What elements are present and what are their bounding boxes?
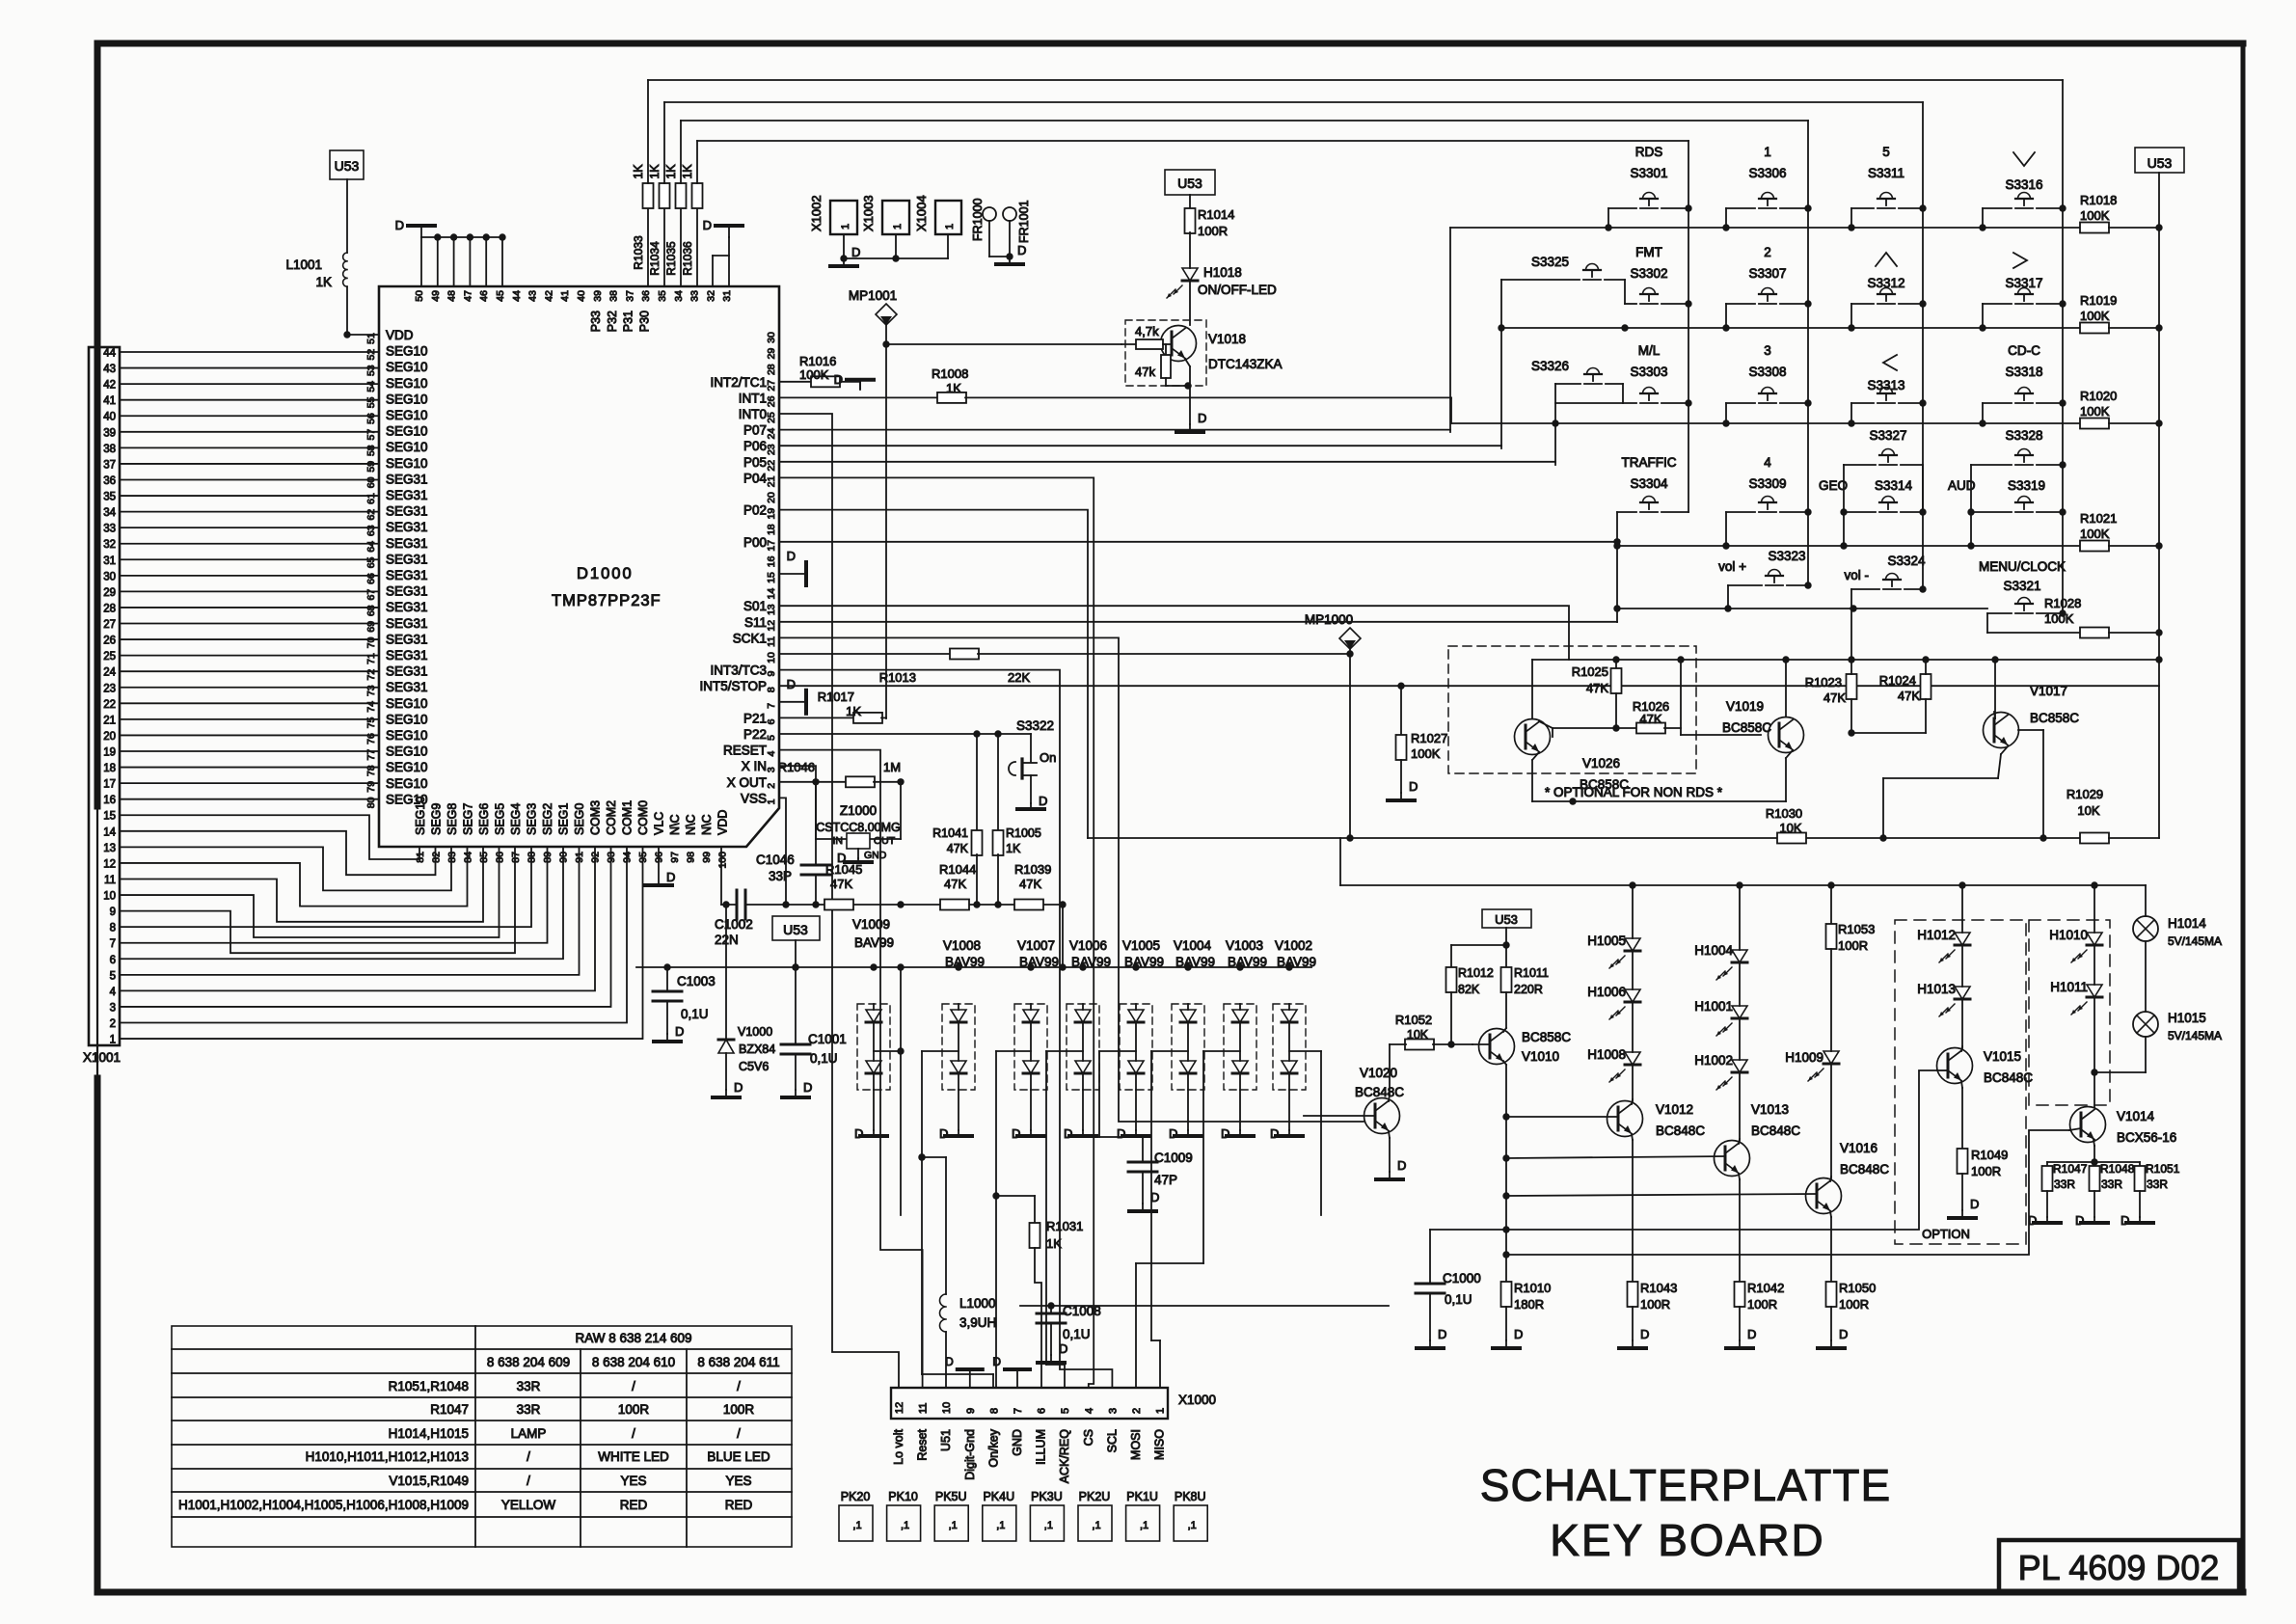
wire X1001 rows 15-9 staircase to IC pins 81-87: [120, 815, 515, 953]
svg-text:D: D: [1012, 1126, 1020, 1141]
wire key column bus 3 (top): [681, 121, 1808, 585]
svg-text:22: 22: [103, 699, 116, 711]
connector X1002: [809, 195, 857, 234]
transistor V1017 BC858C: [1883, 660, 2079, 842]
svg-text:Z1000: Z1000: [840, 803, 877, 818]
svg-text:S3311: S3311: [1868, 166, 1904, 180]
svg-text:H1002: H1002: [1694, 1053, 1733, 1068]
svg-text:44: 44: [511, 290, 523, 302]
svg-text:6: 6: [766, 718, 777, 724]
svg-text:58: 58: [365, 445, 377, 456]
resistor R1052 10K: [1390, 1013, 1472, 1050]
ground D at pin 96 VLC: [645, 847, 675, 885]
svg-text:7: 7: [1013, 1408, 1024, 1414]
resistor R1014 100R: [1185, 195, 1235, 268]
svg-text:5: 5: [110, 970, 116, 982]
svg-text:1: 1: [110, 1035, 116, 1046]
svg-text:BC858C: BC858C: [1522, 1030, 1571, 1044]
svg-text:S3318: S3318: [2005, 365, 2042, 379]
svg-text:2: 2: [766, 783, 777, 789]
connector PK2U: [1078, 1490, 1112, 1541]
switch S3308 3: [1726, 343, 1812, 423]
wire P05 line: [779, 461, 1555, 463]
wire rail y869: [1088, 834, 2080, 885]
svg-text:D: D: [2075, 1213, 2084, 1228]
svg-text:S3306: S3306: [1748, 166, 1786, 180]
svg-text:H1006: H1006: [1587, 985, 1626, 999]
ground D below C1003: [654, 1024, 684, 1042]
svg-text:D: D: [787, 677, 796, 691]
svg-text:45: 45: [495, 290, 506, 302]
switch S3317 right-arrow: [1983, 253, 2066, 328]
svg-text:100R: 100R: [1971, 1164, 2001, 1178]
svg-text:56: 56: [365, 413, 377, 424]
svg-text:49: 49: [430, 290, 442, 302]
svg-text:74: 74: [365, 701, 377, 713]
wire VSS to rail: [779, 798, 786, 905]
svg-text:25: 25: [766, 412, 777, 423]
svg-text:S3323: S3323: [1768, 549, 1805, 563]
svg-text:5V/145MA: 5V/145MA: [2168, 1029, 2222, 1042]
svg-text:98: 98: [686, 852, 697, 863]
svg-text:SEG10: SEG10: [386, 408, 428, 422]
svg-text:S3326: S3326: [1531, 359, 1569, 373]
svg-text:COM1: COM1: [621, 800, 635, 835]
svg-text:H1018: H1018: [1203, 265, 1242, 280]
wire INT5/STOP line: [779, 685, 2159, 687]
switch S3321 MENU/CLOCK: [1979, 559, 2066, 633]
transistor V1012 BC848C: [1506, 1065, 1705, 1283]
svg-text:8 638 204 609: 8 638 204 609: [487, 1355, 570, 1369]
svg-text:100K: 100K: [2080, 309, 2110, 323]
svg-text:FMT: FMT: [1635, 245, 1662, 259]
dashed box optional non-RDS: [1448, 646, 1696, 773]
resistor R1026 47K: [1553, 699, 1681, 734]
svg-text:BC858C: BC858C: [2030, 711, 2079, 725]
svg-text:BC848C: BC848C: [1840, 1162, 1889, 1177]
ground D below R1043: [1619, 1327, 1649, 1348]
svg-text:42: 42: [103, 380, 116, 392]
svg-text:BLUE LED: BLUE LED: [707, 1449, 770, 1464]
svg-text:1K: 1K: [846, 704, 861, 718]
svg-text:R1023: R1023: [1805, 675, 1842, 690]
capacitor C1003 0,1U: [653, 967, 716, 1034]
svg-text:VDD: VDD: [386, 328, 414, 342]
svg-text:MOSI: MOSI: [1129, 1429, 1143, 1460]
svg-text:V1018: V1018: [1208, 332, 1246, 346]
svg-text:10K: 10K: [2077, 803, 2099, 818]
svg-text:ILLUM: ILLUM: [1035, 1429, 1048, 1465]
switch S3322 On: [1009, 718, 1056, 803]
svg-text:35: 35: [103, 492, 116, 503]
connector PK8U: [1174, 1490, 1207, 1541]
LED H1012: [1917, 885, 1970, 962]
svg-text:41: 41: [559, 290, 571, 302]
fuse FR1000: [971, 198, 1010, 257]
svg-text:H1009: H1009: [1785, 1050, 1823, 1065]
svg-text:37: 37: [624, 290, 635, 302]
svg-text:93: 93: [606, 852, 617, 863]
svg-text:1: 1: [766, 798, 777, 804]
svg-text:R1005: R1005: [1006, 826, 1041, 840]
svg-text:R1008: R1008: [932, 366, 968, 381]
svg-text:X1004: X1004: [914, 195, 929, 231]
svg-text:,1: ,1: [996, 1520, 1005, 1531]
svg-text:D: D: [939, 1126, 948, 1141]
wire L1001 to VDD pin 51: [343, 286, 379, 338]
svg-text:D: D: [1117, 1126, 1125, 1141]
connector PK1U: [1126, 1490, 1160, 1541]
svg-text:C5V6: C5V6: [739, 1060, 769, 1073]
wire VDD pin 100 down: [720, 847, 722, 905]
svg-text:P04: P04: [743, 471, 768, 485]
resonator Z1000 CSTCC8.00MG: [816, 782, 901, 861]
svg-text:U51: U51: [939, 1429, 953, 1451]
wire INT0 to X1000 pin 12: [779, 414, 899, 1388]
svg-text:D: D: [734, 1080, 743, 1095]
svg-text:vol +: vol +: [1718, 559, 1746, 574]
svg-text:C1009: C1009: [1154, 1150, 1193, 1165]
svg-text:V1026: V1026: [1582, 756, 1620, 771]
svg-text:R1028: R1028: [2044, 596, 2081, 610]
connector PK4U: [983, 1490, 1016, 1541]
svg-text:R1053: R1053: [1838, 922, 1875, 936]
svg-text:R1029: R1029: [2066, 787, 2103, 801]
svg-text:2: 2: [1764, 245, 1771, 259]
resistor R1050 100R: [1826, 1281, 1877, 1340]
svg-text:65: 65: [365, 556, 377, 568]
svg-text:C1003: C1003: [677, 974, 716, 988]
svg-text:77: 77: [365, 749, 377, 761]
svg-text:P00: P00: [743, 535, 767, 550]
svg-text:vol -: vol -: [1844, 568, 1869, 582]
svg-text:D: D: [1039, 794, 1047, 808]
switch S3309 4: [1726, 455, 1812, 546]
svg-text:C1008: C1008: [1063, 1304, 1101, 1318]
resistor R1030 10K: [1766, 806, 1806, 844]
svg-text:100K: 100K: [2080, 404, 2110, 419]
svg-text:H1013: H1013: [1917, 982, 1956, 996]
svg-text:R1027: R1027: [1411, 731, 1447, 745]
switch S3311 5: [1851, 145, 1923, 228]
ground D at pin 15: [779, 549, 806, 585]
svg-text:92: 92: [590, 852, 602, 863]
dashed box OPTION right: [2029, 920, 2110, 1105]
svg-text:48: 48: [446, 290, 458, 302]
svg-text:SEG8: SEG8: [446, 803, 459, 835]
svg-text:PK20: PK20: [841, 1490, 871, 1503]
capacitor C1000 0,1U: [1416, 1230, 1481, 1340]
switch S3306 1: [1726, 145, 1808, 228]
svg-text:3: 3: [110, 1002, 116, 1014]
svg-text:100K: 100K: [799, 367, 829, 382]
svg-text:BC858C: BC858C: [1722, 720, 1771, 735]
resistor R1036 1K: [681, 141, 703, 286]
svg-text:D: D: [834, 372, 843, 387]
svg-text:33R: 33R: [2101, 1177, 2122, 1191]
transistor V1014 BCX56-16: [2069, 1072, 2176, 1166]
svg-text:37: 37: [103, 459, 116, 471]
svg-text:S01: S01: [743, 599, 767, 613]
switch S3324 vol-: [1844, 554, 1926, 660]
ground D below V1008: [939, 1126, 972, 1141]
svg-text:1K: 1K: [632, 164, 645, 179]
svg-text:84: 84: [463, 852, 474, 863]
svg-text:X1002: X1002: [809, 195, 824, 231]
svg-text:/: /: [527, 1474, 530, 1488]
diode V1006 BAV99: [1067, 938, 1111, 1130]
resistor R1025 47K: [1572, 660, 1622, 732]
svg-text:33R: 33R: [517, 1379, 541, 1394]
ground D below R1027: [1388, 779, 1418, 800]
LED H1010: [2049, 885, 2102, 962]
svg-text:100R: 100R: [618, 1402, 650, 1417]
svg-text:21: 21: [103, 715, 116, 726]
connector X1001: [83, 347, 121, 1065]
svg-text:79: 79: [365, 781, 377, 793]
svg-text:SEG10: SEG10: [386, 744, 428, 759]
svg-text:24: 24: [103, 667, 116, 679]
svg-text:S3316: S3316: [2005, 177, 2042, 192]
wire rail C y1301: [1506, 1130, 2069, 1255]
resistor R1012 82K: [1446, 966, 1494, 1048]
wire pins 32-31 to ground: [713, 237, 729, 286]
dashed box OPTION left: [1895, 920, 2026, 1244]
svg-text:R1042: R1042: [1747, 1281, 1784, 1295]
svg-text:H1011: H1011: [2050, 980, 2088, 994]
svg-text:14: 14: [103, 826, 116, 838]
svg-text:220R: 220R: [1514, 983, 1543, 996]
svg-text:100K: 100K: [1411, 746, 1441, 761]
svg-text:82K: 82K: [1458, 983, 1480, 996]
svg-text:19: 19: [766, 508, 777, 520]
LED H1009: [1785, 1050, 1839, 1081]
wire MP1001 to V1018 base: [886, 343, 1121, 345]
svg-text:1K: 1K: [664, 164, 678, 179]
svg-text:67: 67: [365, 589, 377, 601]
svg-text:VDD: VDD: [716, 810, 730, 835]
wire P04 to X1000 pin 4: [779, 477, 1094, 1388]
svg-text:U53: U53: [1495, 912, 1518, 927]
svg-text:SEG10: SEG10: [386, 392, 428, 406]
wire BAV99 taps: [918, 1051, 1321, 1388]
transistor V1019 BC858C: [1722, 660, 1804, 801]
wire X IN: [779, 766, 816, 782]
svg-text:V1019: V1019: [1726, 699, 1764, 714]
svg-text:R1035: R1035: [664, 241, 678, 276]
ground D below C1001: [782, 1080, 812, 1097]
svg-text:24: 24: [766, 428, 777, 440]
wire emitter line y831: [1532, 798, 1786, 804]
svg-text:47: 47: [462, 290, 473, 302]
svg-text:/: /: [737, 1379, 741, 1394]
svg-text:5: 5: [766, 735, 777, 741]
svg-text:H1001,H1002,H1004,H1005,H1006,: H1001,H1002,H1004,H1005,H1006,H1008,H100…: [178, 1498, 469, 1512]
label OPTION: [1922, 1227, 1970, 1241]
svg-text:R1047: R1047: [430, 1402, 469, 1417]
svg-text:RED: RED: [725, 1498, 753, 1512]
svg-text:18: 18: [103, 763, 116, 774]
svg-text:30: 30: [766, 332, 777, 343]
fuse FR1001: [1003, 200, 1031, 259]
svg-text:SEG5: SEG5: [494, 803, 507, 835]
switch S3326: [1531, 359, 1623, 403]
wire key column bus 1 (top): [648, 80, 2063, 613]
svg-text:33R: 33R: [517, 1402, 541, 1417]
svg-text:1: 1: [1764, 145, 1771, 159]
svg-text:INT1: INT1: [739, 391, 767, 405]
LED H1005: [1587, 885, 1640, 968]
wire key column bus 4 (top): [697, 141, 1688, 512]
svg-text:S3302: S3302: [1630, 266, 1667, 281]
transistor V1020 BC848C: [1304, 1044, 1404, 1172]
connector PK5U: [934, 1490, 968, 1541]
svg-text:On/key: On/key: [986, 1428, 1000, 1467]
svg-text:,1: ,1: [1044, 1520, 1053, 1531]
wire P02 to X1000 pin 3: [779, 510, 1088, 838]
svg-text:R1044: R1044: [939, 862, 976, 877]
svg-text:BAV99: BAV99: [945, 955, 985, 969]
svg-text:D: D: [703, 218, 712, 232]
svg-text:V1000: V1000: [738, 1025, 772, 1039]
svg-text:1M: 1M: [883, 760, 901, 774]
svg-text:40: 40: [103, 412, 116, 423]
svg-text:R1048: R1048: [2100, 1162, 2135, 1176]
svg-text:V1009: V1009: [852, 917, 890, 932]
resistor R1031 1K: [992, 1192, 1083, 1388]
diode V1007 BAV99: [1014, 938, 1059, 1130]
svg-text:69: 69: [365, 621, 377, 633]
ground D above pin 31: [703, 218, 743, 237]
svg-text:D: D: [675, 1024, 684, 1039]
wire LED feed rail y918: [1340, 881, 2146, 888]
LED H1008: [1587, 1002, 1640, 1082]
svg-text:R1016: R1016: [799, 354, 836, 368]
svg-text:,1: ,1: [852, 1520, 861, 1531]
svg-text:38: 38: [608, 290, 620, 302]
svg-text:66: 66: [365, 573, 377, 584]
svg-text:MP1000: MP1000: [1305, 612, 1353, 627]
ground D below V1004: [1169, 1126, 1202, 1141]
svg-text:H1010: H1010: [2049, 928, 2088, 942]
svg-text:,1: ,1: [1188, 1520, 1197, 1531]
svg-text:S3328: S3328: [2005, 428, 2042, 443]
svg-text:4: 4: [766, 751, 777, 757]
resistor R1021 100K: [2080, 511, 2163, 552]
svg-text:10K: 10K: [1407, 1028, 1429, 1042]
svg-text:MP1001: MP1001: [849, 288, 897, 303]
svg-text:36: 36: [640, 290, 652, 302]
LED H1004: [1694, 885, 1747, 980]
resistor R1033 1K: [632, 80, 654, 286]
svg-text:50: 50: [414, 290, 425, 302]
svg-text:P30: P30: [637, 311, 651, 332]
ground D below V1018: [1176, 411, 1206, 432]
test point MP1001: [849, 288, 897, 348]
switch S3307 2: [1726, 245, 1812, 328]
ground D at pin 7: [779, 677, 806, 714]
svg-text:N\C: N\C: [685, 814, 698, 835]
svg-text:,1: ,1: [901, 1520, 909, 1531]
svg-text:N\C: N\C: [668, 814, 682, 835]
svg-text:13: 13: [766, 604, 777, 615]
svg-text:1K: 1K: [1006, 842, 1021, 855]
svg-text:5V/145MA: 5V/145MA: [2168, 934, 2222, 948]
svg-text:H1014: H1014: [2168, 916, 2206, 931]
svg-text:75: 75: [365, 717, 377, 728]
svg-text:100R: 100R: [1640, 1297, 1670, 1312]
wire P00 line: [779, 541, 1617, 543]
svg-text:42: 42: [543, 290, 554, 302]
svg-text:86: 86: [495, 852, 506, 863]
svg-text:11: 11: [766, 636, 777, 647]
variant table: [172, 1326, 792, 1547]
svg-text:22: 22: [766, 460, 777, 472]
svg-text:BC848C: BC848C: [1656, 1123, 1705, 1138]
ground D below V1020: [1376, 1158, 1406, 1179]
svg-text:1K: 1K: [315, 275, 332, 289]
svg-text:47K: 47K: [944, 877, 966, 891]
svg-text:81: 81: [415, 852, 426, 863]
svg-text:FR1001: FR1001: [1017, 200, 1031, 243]
svg-text:100R: 100R: [723, 1402, 755, 1417]
svg-text:0,1U: 0,1U: [810, 1051, 838, 1066]
svg-text:1K: 1K: [681, 164, 694, 179]
resistor R1008 1K on INT1: [779, 366, 1451, 423]
svg-text:S3324: S3324: [1887, 554, 1926, 568]
switch S3328: [1971, 428, 2066, 469]
ground D below V1005: [1117, 1126, 1149, 1141]
wire rail y938 to lower rail: [1059, 905, 1066, 971]
ground D below V1007: [1012, 1126, 1044, 1141]
svg-text:D: D: [1747, 1327, 1756, 1341]
svg-text:SEG31: SEG31: [386, 520, 428, 534]
svg-text:D: D: [1397, 1158, 1406, 1173]
svg-text:MENU/CLOCK: MENU/CLOCK: [1979, 559, 2066, 574]
svg-text:On: On: [1040, 750, 1056, 765]
title block PL 4609 D02: [1999, 1540, 2239, 1592]
svg-text:100K: 100K: [2044, 611, 2074, 626]
svg-text:100K: 100K: [2080, 208, 2110, 223]
svg-text:V1017: V1017: [2030, 684, 2067, 698]
svg-text:17: 17: [766, 540, 777, 552]
svg-text:RAW 8 638 214 609: RAW 8 638 214 609: [575, 1331, 691, 1345]
flag U53 bottom-middle: [772, 916, 820, 940]
svg-text:80: 80: [365, 797, 377, 808]
wire U53 to R1012 R1011: [1451, 928, 1510, 967]
svg-text:PL 4609 D02: PL 4609 D02: [2018, 1548, 2220, 1587]
svg-text:PK1U: PK1U: [1126, 1490, 1158, 1503]
wire key column bus 2 (top): [664, 102, 1923, 589]
ground D below V1009: [854, 1126, 887, 1141]
svg-text:PK2U: PK2U: [1079, 1490, 1111, 1503]
svg-text:GND: GND: [1011, 1429, 1024, 1456]
capacitor C1001 0,1U: [781, 967, 847, 1090]
svg-text:78: 78: [365, 765, 377, 776]
ground D below X1002: [830, 245, 860, 266]
svg-text:MISO: MISO: [1153, 1429, 1167, 1460]
svg-text:12: 12: [766, 620, 777, 632]
svg-text:1: 1: [840, 224, 851, 230]
svg-text:SEG2: SEG2: [541, 803, 554, 835]
svg-text:P22: P22: [743, 727, 767, 742]
svg-text:85: 85: [478, 852, 490, 863]
ground D below C1009: [1129, 1190, 1159, 1211]
svg-text:8: 8: [110, 923, 116, 934]
svg-text:95: 95: [637, 852, 649, 863]
svg-text:PK3U: PK3U: [1031, 1490, 1063, 1503]
svg-text:0,1U: 0,1U: [1445, 1292, 1472, 1307]
